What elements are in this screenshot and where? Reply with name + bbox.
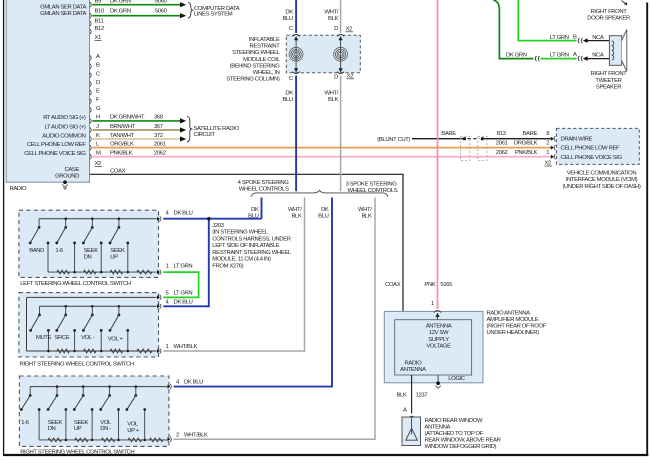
wire L ORG/BLK 2061 to VCIM [92, 141, 551, 147]
svg-text:SRCE: SRCE [54, 335, 69, 341]
wire WHT/BLK from top to coil [324, 0, 353, 33]
wire WHT/BLK 4-spoke [163, 198, 304, 352]
svg-text:2062: 2062 [496, 150, 508, 156]
svg-text:SEEK: SEEK [74, 420, 89, 426]
svg-text:D: D [96, 80, 100, 86]
svg-text:WHT/: WHT/ [324, 90, 338, 96]
svg-text:5060: 5060 [155, 0, 168, 4]
wire H DK GRN/WHT 368 [92, 115, 186, 124]
svg-text:UP: UP [74, 426, 82, 432]
svg-text:DK GRN: DK GRN [110, 0, 131, 4]
svg-text:INFLATABLE: INFLATABLE [249, 37, 280, 43]
S1 internals [29, 217, 157, 274]
svg-text:813: 813 [497, 131, 507, 137]
svg-text:LT GRN: LT GRN [550, 35, 569, 41]
svg-text:NCA: NCA [592, 53, 604, 59]
svg-text:STEERING COLUMN): STEERING COLUMN) [226, 76, 280, 82]
svg-text:NCA: NCA [592, 35, 604, 41]
svg-text:LT GRN: LT GRN [174, 290, 193, 296]
svg-text:CELL PHONE LOW REF: CELL PHONE LOW REF [27, 142, 87, 148]
svg-text:F: F [96, 97, 100, 103]
svg-text:WHT/: WHT/ [288, 207, 302, 213]
off-page arrow (top right) [622, 1, 628, 6]
svg-text:DN: DN [48, 426, 56, 432]
svg-text:DOOR SPEAKER: DOOR SPEAKER [587, 16, 630, 22]
svg-text:M: M [96, 151, 101, 157]
splice J203 [212, 223, 292, 270]
svg-text:CELL PHONE VOICE SIG: CELL PHONE VOICE SIG [24, 151, 86, 157]
inflatable restraint steering wheel module coil [226, 35, 360, 82]
svg-text:4: 4 [176, 380, 180, 386]
svg-text:4: 4 [166, 299, 170, 305]
svg-text:UP: UP [110, 255, 118, 261]
vehicle communication interface module (VCIM) [556, 128, 641, 189]
svg-text:BLU: BLU [282, 16, 292, 22]
svg-text:D: D [334, 26, 338, 32]
svg-text:CIRCUIT: CIRCUIT [194, 132, 216, 138]
svg-text:MODULE, 11 CM (4.4 IN): MODULE, 11 CM (4.4 IN) [212, 257, 271, 263]
svg-text:1-6: 1-6 [21, 420, 29, 426]
svg-text:VOLTAGE: VOLTAGE [426, 343, 451, 349]
svg-text:RT AUDIO SIG (+): RT AUDIO SIG (+) [43, 115, 86, 121]
coax wire from radio X2 to antenna amplifier [90, 174, 403, 319]
svg-text:C: C [289, 76, 294, 82]
svg-text:ORG/BLK: ORG/BLK [514, 140, 538, 146]
svg-text:DK: DK [251, 207, 259, 213]
svg-text:C: C [289, 26, 294, 32]
wire LT GRN (cut at top) [518, 0, 576, 41]
svg-text:B12: B12 [95, 26, 104, 32]
right front tweeter speaker [587, 9, 630, 90]
svg-text:1-6: 1-6 [55, 248, 63, 254]
svg-text:TWEETER: TWEETER [595, 78, 621, 84]
svg-text:367: 367 [154, 124, 163, 130]
svg-text:SPEAKER: SPEAKER [596, 85, 621, 91]
svg-text:DK GRN: DK GRN [506, 53, 527, 59]
svg-text:1: 1 [431, 301, 434, 307]
svg-text:4: 4 [166, 210, 170, 216]
svg-text:COAX: COAX [385, 282, 401, 288]
svg-text:BLK: BLK [292, 214, 302, 220]
svg-text:RIGHT FRONT: RIGHT FRONT [591, 9, 628, 15]
wire DK BLU from top to coil [282, 0, 296, 33]
svg-text:BLK: BLK [328, 97, 338, 103]
svg-text:RIGHT STEERING WHEEL CONTROL S: RIGHT STEERING WHEEL CONTROL SWITCH [20, 450, 134, 456]
svg-text:PNK: PNK [424, 282, 435, 288]
svg-text:1: 1 [166, 264, 169, 270]
svg-text:SUPPLY: SUPPLY [428, 337, 449, 343]
wire DK GRN (to door speaker, cut at top) [493, 0, 533, 59]
svg-text:RIGHT FRONT: RIGHT FRONT [591, 71, 628, 77]
svg-text:2: 2 [546, 140, 549, 146]
right steering wheel control switch S2 [19, 293, 159, 368]
svg-text:BLK: BLK [328, 16, 338, 22]
svg-text:WHT/BLK: WHT/BLK [184, 433, 208, 439]
svg-text:WINDOW DEFOGGER GRID): WINDOW DEFOGGER GRID) [425, 444, 497, 450]
NCA wires to tweeter [583, 35, 610, 61]
S3 pin 2 [167, 433, 208, 442]
label 3 spoke steering wheel controls [346, 182, 398, 194]
S2 internals [27, 297, 157, 353]
svg-text:B9: B9 [95, 0, 102, 4]
svg-text:1237: 1237 [416, 393, 428, 399]
svg-text:BLK: BLK [362, 214, 372, 220]
svg-text:372: 372 [154, 133, 163, 139]
svg-text:INTERFACE MODULE (VCIM): INTERFACE MODULE (VCIM) [566, 177, 638, 183]
svg-text:RADIO ANTENNA: RADIO ANTENNA [487, 310, 531, 316]
svg-text:RESTRAINT STEERING WHEEL: RESTRAINT STEERING WHEEL [212, 250, 292, 256]
svg-text:G: G [96, 106, 101, 112]
svg-text:ANTENNA: ANTENNA [426, 324, 452, 330]
svg-text:WHT/: WHT/ [358, 207, 372, 213]
svg-text:368: 368 [154, 115, 164, 121]
svg-text:LOGIC: LOGIC [448, 376, 466, 382]
svg-text:GMLAN SER DATA: GMLAN SER DATA [40, 4, 86, 10]
svg-text:DN: DN [84, 255, 92, 261]
svg-text:A: A [573, 52, 577, 58]
svg-text:SEEK: SEEK [48, 420, 63, 426]
svg-text:B: B [96, 63, 100, 69]
radio connector pins [90, 2, 91, 159]
wire DK BLU 3-spoke [174, 198, 333, 387]
svg-text:E: E [96, 89, 100, 95]
in-line connector (dashed) [461, 136, 487, 160]
svg-text:FROM X276): FROM X276) [212, 263, 243, 269]
label LT GRN B [550, 34, 577, 41]
svg-text:COAX: COAX [110, 168, 126, 174]
svg-text:VOL: VOL [127, 422, 139, 428]
wire GMLAN SER DATA B10 DK GRN 5060 [92, 9, 186, 19]
svg-text:BARE: BARE [523, 131, 538, 137]
svg-text:12V SW: 12V SW [429, 330, 449, 336]
svg-text:DK BLU: DK BLU [174, 299, 193, 305]
svg-text:UP +: UP + [127, 428, 140, 434]
svg-text:A: A [96, 54, 100, 60]
svg-text:(ATTACHED TO TOP OF: (ATTACHED TO TOP OF [425, 431, 484, 437]
svg-text:BRN/WHT: BRN/WHT [110, 124, 136, 130]
pin labels [95, 9, 126, 175]
svg-text:WHT/BLK: WHT/BLK [174, 344, 198, 350]
svg-text:ANTENNA: ANTENNA [400, 367, 426, 373]
svg-text:STEERING WHEEL: STEERING WHEEL [232, 50, 280, 56]
svg-text:4 SPOKE STEERING: 4 SPOKE STEERING [238, 180, 290, 186]
svg-text:RADIO REAR WINDOW: RADIO REAR WINDOW [425, 418, 484, 424]
wire LT GRN switch1 to switch2 [163, 272, 198, 297]
wire GMLAN SER DATA (cut at top) [92, 0, 186, 7]
svg-text:VOL: VOL [100, 420, 112, 426]
svg-text:(UNDER RIGHT SIDE OF DASH): (UNDER RIGHT SIDE OF DASH) [562, 184, 640, 190]
svg-text:A: A [403, 408, 407, 414]
VCIM wire labels [496, 131, 550, 156]
wire K TAN/WHT 372 [92, 133, 186, 142]
coil L2 (right) [334, 34, 348, 73]
svg-text:B: B [573, 34, 577, 40]
wire M PNK/BLK 2062 to VCIM [92, 151, 551, 157]
svg-text:LEFT SIDE OF INFLATABLE: LEFT SIDE OF INFLATABLE [212, 243, 279, 249]
svg-text:LT GRN: LT GRN [550, 53, 569, 59]
svg-text:AUDIO COMMON: AUDIO COMMON [42, 133, 85, 139]
svg-text:GROUND: GROUND [55, 173, 79, 179]
S1 pin 1 [157, 264, 192, 275]
svg-text:CASE: CASE [64, 167, 79, 173]
svg-text:(BEHIND STEERING: (BEHIND STEERING [230, 63, 281, 69]
svg-text:SEEK: SEEK [84, 248, 99, 254]
wire LT GRN to tweeter A [541, 52, 578, 59]
svg-text:ANTENNA: ANTENNA [425, 425, 451, 431]
svg-text:PNK/BLK: PNK/BLK [515, 150, 538, 156]
svg-text:CONTROLS HARNESS, UNDER: CONTROLS HARNESS, UNDER [212, 236, 290, 242]
wire WHT/BLK 3-spoke [174, 198, 376, 440]
svg-text:2061: 2061 [496, 140, 508, 146]
amplifier pin 1 (PNK) [431, 301, 441, 320]
svg-text:J203: J203 [212, 223, 224, 229]
svg-text:BLK: BLK [397, 393, 407, 399]
wire BLK 1237 [397, 393, 428, 399]
radio rear window antenna [402, 408, 501, 451]
svg-text:CELL PHONE VOICE SIG: CELL PHONE VOICE SIG [561, 155, 623, 161]
svg-text:2: 2 [176, 433, 179, 439]
svg-text:AMPLIFIER MODULE: AMPLIFIER MODULE [487, 317, 539, 323]
svg-text:VOL -: VOL - [81, 335, 95, 341]
svg-text:K: K [96, 133, 100, 139]
svg-text:BLU: BLU [282, 97, 292, 103]
S3 internals [20, 385, 167, 441]
coil L1 (left) [289, 34, 303, 73]
svg-text:3 SPOKE STEERING: 3 SPOKE STEERING [346, 182, 398, 188]
svg-text:GMLAN SER DATA: GMLAN SER DATA [40, 11, 86, 17]
svg-text:UNDER HEADLINER): UNDER HEADLINER) [487, 330, 540, 336]
brace [251, 190, 388, 196]
svg-text:PNK/BLK: PNK/BLK [110, 151, 133, 157]
svg-text:5165: 5165 [440, 282, 453, 288]
svg-text:WHEEL, IN: WHEEL, IN [253, 70, 280, 76]
svg-text:DK: DK [285, 90, 293, 96]
svg-text:MUTE: MUTE [36, 335, 52, 341]
svg-text:RESTRAINT: RESTRAINT [250, 44, 281, 50]
VCIM pins [545, 136, 556, 167]
svg-text:REAR WINDOW, ABOVE REAR: REAR WINDOW, ABOVE REAR [425, 438, 501, 444]
svg-text:1: 1 [166, 344, 169, 350]
coax label near amplifier [385, 282, 401, 288]
left steering wheel control switch S1 [19, 210, 159, 287]
svg-text:WHT/: WHT/ [324, 10, 338, 16]
wire DK BLU 4-spoke [248, 198, 261, 220]
svg-text:J: J [96, 124, 99, 130]
svg-text:LT AUDIO SIG (+): LT AUDIO SIG (+) [44, 124, 85, 130]
svg-text:C: C [96, 71, 101, 77]
svg-text:(BLUNT CUT): (BLUNT CUT) [377, 137, 410, 143]
svg-text:DK GRN: DK GRN [110, 9, 131, 15]
svg-text:H: H [96, 115, 100, 121]
svg-text:5: 5 [166, 290, 170, 296]
svg-text:DRAIN WIRE: DRAIN WIRE [561, 136, 593, 142]
svg-text:BARE: BARE [441, 131, 456, 137]
svg-text:RADIO: RADIO [405, 360, 423, 366]
splice junction dots [463, 137, 484, 140]
right steering wheel control switch S3 (3 spoke) [19, 376, 169, 456]
label 4 spoke steering wheel controls [238, 180, 290, 192]
svg-text:DK: DK [285, 10, 293, 16]
in-line connector on DK GRN [535, 56, 539, 61]
satellite radio circuit [187, 116, 240, 142]
S1 pin 4 [157, 210, 193, 221]
svg-text:TAN/WHT: TAN/WHT [110, 133, 135, 139]
wire J BRN/WHT 367 [92, 124, 186, 133]
svg-text:RIGHT STEERING WHEEL CONTROL S: RIGHT STEERING WHEEL CONTROL SWITCH [20, 361, 134, 367]
svg-text:SEEK: SEEK [110, 248, 125, 254]
S3 pin 4 [167, 380, 203, 390]
svg-text:MODULE COIL: MODULE COIL [243, 57, 281, 63]
svg-text:VEHICLE COMMUNICATION: VEHICLE COMMUNICATION [567, 170, 637, 176]
svg-text:LT GRN: LT GRN [174, 264, 193, 270]
radio [6, 0, 89, 192]
wire DK BLU to left switch [163, 217, 261, 306]
S2 pin 1 [157, 344, 197, 354]
wire DK BLU coil to brace [282, 76, 296, 192]
coil bottom pin labels [289, 73, 354, 82]
svg-text:VOL +: VOL + [108, 336, 124, 342]
svg-text:DN -: DN - [100, 426, 111, 432]
computer data lines system [188, 2, 240, 18]
svg-text:BLU: BLU [318, 214, 328, 220]
svg-text:L: L [96, 141, 100, 147]
svg-text:DK GRN/WHT: DK GRN/WHT [110, 115, 145, 121]
antenna lead + logic stub [412, 375, 439, 414]
svg-text:(RIGHT REAR OF ROOF: (RIGHT REAR OF ROOF [487, 323, 547, 329]
svg-text:LINES SYSTEM: LINES SYSTEM [194, 12, 233, 18]
wire PNK 5165 [424, 0, 453, 309]
svg-text:LEFT STEERING WHEEL CONTROL SW: LEFT STEERING WHEEL CONTROL SWITCH [20, 281, 131, 287]
svg-text:(IN STEERING WHEEL: (IN STEERING WHEEL [212, 230, 268, 236]
svg-text:WHEEL CONTROLS: WHEEL CONTROLS [239, 186, 289, 192]
logic case ground [435, 381, 441, 388]
svg-text:B10: B10 [95, 9, 105, 15]
in-line connectors at tweeter [578, 38, 582, 61]
svg-text:8: 8 [546, 131, 550, 137]
svg-text:1: 1 [546, 150, 549, 156]
svg-text:DK BLU: DK BLU [174, 210, 193, 216]
svg-text:2061: 2061 [154, 141, 166, 147]
svg-text:CELL PHONE LOW REF: CELL PHONE LOW REF [561, 146, 621, 152]
wire WHT/BLK coil to brace [324, 76, 340, 192]
svg-text:5060: 5060 [155, 9, 168, 15]
S2 pin 5 [157, 290, 192, 300]
bare drain wire (blunt cut) [377, 131, 551, 143]
svg-text:DK BLU: DK BLU [184, 380, 203, 386]
svg-text:RADIO: RADIO [10, 186, 28, 192]
radio antenna amplifier module [384, 310, 546, 382]
svg-text:D: D [334, 75, 338, 81]
radio case ground [62, 180, 68, 189]
svg-text:2062: 2062 [154, 151, 166, 157]
svg-text:DK: DK [321, 207, 329, 213]
svg-text:B11: B11 [95, 18, 104, 24]
S2 pin 4 [157, 299, 193, 309]
svg-text:BAND: BAND [29, 248, 44, 254]
svg-text:ORG/BLK: ORG/BLK [110, 141, 134, 147]
